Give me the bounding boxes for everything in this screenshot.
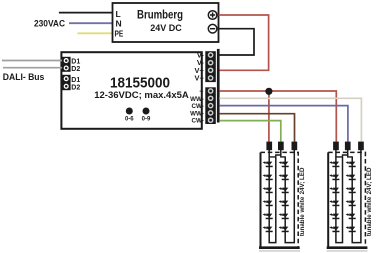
svg-text:D2: D2 xyxy=(71,66,80,73)
svg-text:CW-: CW- xyxy=(192,118,204,125)
internal wiring column A xyxy=(335,150,337,241)
svg-text:0-9: 0-9 xyxy=(142,117,151,123)
U bend B to T3 xyxy=(285,150,294,243)
terminal block cw xyxy=(292,142,298,151)
svg-text:24V; LED: 24V; LED xyxy=(366,167,373,194)
wire DALI 2 xyxy=(3,67,62,69)
U bend A xyxy=(336,157,343,242)
svg-text:D2: D2 xyxy=(71,85,80,92)
button 0-9 xyxy=(143,108,150,115)
svg-text:Brumberg: Brumberg xyxy=(137,9,183,21)
svg-text:V+: V+ xyxy=(195,74,205,83)
DALI terminal block group 2 xyxy=(62,75,71,90)
power supply U1 Brumberg box xyxy=(113,3,219,42)
LED strip module 2 xyxy=(327,142,373,251)
svg-text:D1: D1 xyxy=(71,59,80,66)
wire CW- green xyxy=(219,121,280,142)
LEDs column B xyxy=(346,161,356,232)
wire N 230VAC xyxy=(69,22,113,24)
U bend B to T3 xyxy=(352,150,361,243)
wire + branch down to left strip xyxy=(268,91,270,142)
wire + red to strips xyxy=(219,91,336,142)
top jog wiring xyxy=(336,155,352,162)
svg-text:230VAC: 230VAC xyxy=(34,19,65,30)
terminal minus of U1 xyxy=(208,24,217,33)
module outline dashed xyxy=(328,152,365,247)
T2 stub xyxy=(347,150,349,156)
svg-text:tunable white: tunable white xyxy=(366,196,373,236)
svg-text:12-36VDC; max.4x5A: 12-36VDC; max.4x5A xyxy=(94,90,189,101)
module outline dashed xyxy=(261,152,299,247)
svg-text:24V DC: 24V DC xyxy=(150,23,182,33)
output terminal block group V xyxy=(205,51,216,82)
svg-text:N: N xyxy=(116,19,122,29)
wire CW- blue xyxy=(219,106,348,142)
terminal block ww xyxy=(278,142,284,151)
terminal block cw xyxy=(345,142,351,151)
LEDs column A xyxy=(329,161,339,232)
LED strip module 1 xyxy=(259,142,306,251)
DALI terminal block group 1 xyxy=(62,57,71,72)
internal wiring column B xyxy=(284,157,286,241)
svg-text:+: + xyxy=(199,86,203,95)
LEDs column B xyxy=(279,161,289,232)
button 0-6 xyxy=(126,108,133,115)
internal wiring column A xyxy=(268,150,270,241)
wire DALI 1 xyxy=(2,60,62,62)
svg-text:DALI- Bus: DALI- Bus xyxy=(3,72,45,83)
svg-text:tunable white: tunable white xyxy=(299,196,306,236)
svg-text:24V; LED: 24V; LED xyxy=(299,167,306,194)
svg-text:0-6: 0-6 xyxy=(125,117,134,123)
wire WW- brown xyxy=(219,114,294,142)
wire plus to V+ (red) xyxy=(219,15,269,70)
LEDs column A xyxy=(263,161,273,232)
wire minus to V- (black) xyxy=(219,29,255,55)
svg-text:L: L xyxy=(116,9,121,19)
controller box 18155000 xyxy=(61,52,201,129)
terminal block ww xyxy=(358,142,364,151)
svg-text:WW-: WW- xyxy=(190,110,204,117)
wire WW- light grey xyxy=(219,98,361,142)
svg-text:WW-: WW- xyxy=(190,96,204,103)
terminal plus of U1 xyxy=(208,11,217,20)
U bend A xyxy=(269,157,276,242)
wire L 230VAC xyxy=(59,12,113,14)
top jog wiring xyxy=(269,155,285,162)
junction node xyxy=(265,88,272,95)
terminal rail right of output blocks xyxy=(217,49,220,123)
svg-text:CW-: CW- xyxy=(192,103,204,110)
svg-text:D1: D1 xyxy=(71,77,80,84)
wire PE 230VAC xyxy=(78,32,113,34)
terminal block + xyxy=(266,142,272,151)
T2 stub xyxy=(280,150,282,156)
output terminal block group LED xyxy=(205,87,216,124)
terminal block + xyxy=(333,142,339,151)
svg-text:PE: PE xyxy=(115,29,124,39)
internal wiring column B xyxy=(351,157,353,241)
